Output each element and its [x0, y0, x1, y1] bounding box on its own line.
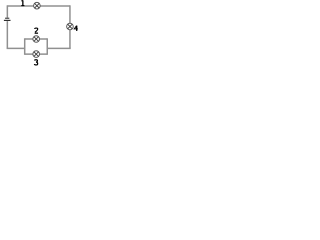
wire entry (bottom corner to parallel box left) — [7, 47, 25, 49]
wire right vertical — [69, 5, 71, 48]
lamp 4 — [67, 23, 74, 30]
wire parallel box top branch — [25, 38, 48, 40]
label 4 — [74, 26, 78, 31]
lamp 3 — [33, 51, 40, 58]
label 2 — [35, 28, 38, 33]
label 1 — [21, 0, 24, 5]
wire left vertical upper (corner to cell) — [6, 5, 8, 17]
wire parallel box left vertical — [24, 38, 26, 55]
label 3 — [34, 60, 37, 65]
wire top (battery top corner to right corner) — [7, 5, 70, 7]
wire parallel box right vertical — [46, 38, 48, 55]
wire parallel box bottom branch — [25, 53, 48, 55]
wire bottom right (corner to parallel box) — [47, 47, 70, 49]
lamp 1 — [34, 2, 41, 9]
wire left vertical lower (cell to bottom corner) — [6, 21, 8, 48]
cell B1 long plate — [4, 19, 11, 21]
lamp 2 — [33, 36, 40, 43]
cell B1 short plate — [5, 17, 9, 19]
